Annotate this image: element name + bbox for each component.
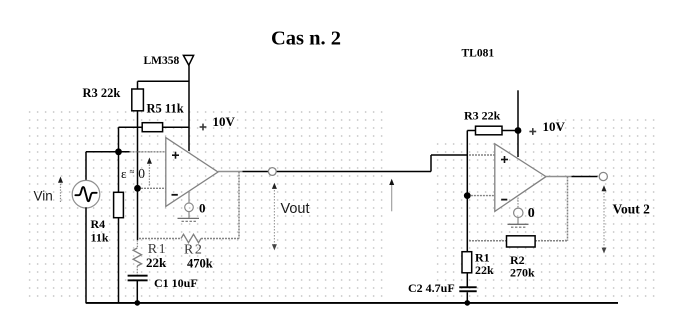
resistor R2 (stage 2) (507, 236, 536, 247)
svg-text:R3 22k: R3 22k (83, 86, 121, 100)
wire feedback 2 horizontal (dotted) (469, 240, 568, 242)
resistor R1 zigzag (136, 240, 138, 248)
node Vout open circle (268, 168, 276, 176)
wire port to op-amp supply (188, 65, 190, 151)
node junction dot A (115, 148, 122, 155)
wire step up (430, 155, 432, 172)
wire to stage 2 (431, 154, 467, 156)
supply label +10V left (200, 124, 207, 131)
wire C1 to rail (136, 281, 138, 303)
svg-text:R4: R4 (91, 217, 106, 231)
svg-text:Vout: Vout (281, 201, 310, 217)
svg-text:0: 0 (199, 201, 206, 216)
wire R5 right (163, 126, 189, 128)
wire feedback vertical (dotted) (238, 172, 240, 239)
svg-text:ε: ε (121, 166, 127, 181)
ground 0 symbol 2 (508, 223, 529, 225)
arrow epsilon (148, 163, 150, 186)
wire non-inverting input (dotted) (130, 151, 166, 153)
resistor R3 (132, 89, 144, 111)
wire R4 bottom to rail (118, 218, 120, 303)
op-amp U2 TL081 (495, 144, 546, 212)
arrow Vout (273, 187, 275, 247)
op-amp U1 LM358 (166, 138, 218, 207)
wire source to node A (86, 151, 130, 153)
capacitor C2 (459, 286, 476, 288)
wire R1 to C2 (466, 273, 468, 287)
svg-text:270k: 270k (510, 265, 535, 279)
svg-text:C1 10uF: C1 10uF (154, 276, 198, 290)
svg-text:22k: 22k (146, 255, 167, 270)
wire R3 left (467, 130, 475, 132)
arrow Vin (60, 182, 62, 203)
resistor R4 (114, 192, 124, 217)
supply label +10V right (529, 128, 536, 135)
arrow Vout2 (603, 190, 605, 249)
wire non-inverting input 2 (dotted) (469, 154, 495, 156)
svg-text:Vout 2: Vout 2 (613, 202, 651, 217)
svg-text:22k: 22k (475, 263, 494, 277)
wire R5 branch down (118, 127, 120, 152)
wire R3 right (502, 130, 518, 132)
wire inverting input (dotted) (141, 187, 166, 189)
wire branch A vertical (466, 131, 468, 252)
svg-text:470k: 470k (187, 257, 213, 271)
ground 0 symbol (178, 217, 200, 219)
resistor R3 (stage 2) (476, 126, 503, 135)
svg-text:R2: R2 (184, 243, 203, 258)
node junction dot supply 2 (515, 127, 522, 134)
arrow intermediate (391, 184, 393, 211)
wire output U2 gray stub (546, 176, 572, 178)
resistor R5 (142, 123, 162, 132)
wire supply vertical stage 2 (517, 90, 519, 157)
svg-text:LM358: LM358 (144, 55, 180, 67)
svg-text:10V: 10V (543, 119, 566, 134)
node junction dot C1-rail (135, 300, 141, 306)
node junction dot B (inverting node) (134, 185, 141, 192)
wire source bottom (85, 207, 87, 303)
svg-text:Cas n. 2: Cas n. 2 (271, 28, 341, 50)
wire output U1 (243, 171, 432, 173)
wire R5 left (119, 126, 143, 128)
svg-text:11k: 11k (91, 231, 109, 245)
wire feedback R2 left (dotted) (139, 238, 181, 240)
resistor R2 zigzag (181, 234, 201, 242)
wire top horizontal (138, 80, 190, 82)
wire output U2 (572, 176, 598, 178)
svg-text:TL081: TL081 (462, 48, 495, 60)
ground stub U1 (188, 192, 190, 203)
node Vout2 open circle (599, 172, 607, 180)
ground terminal circle U1 (185, 203, 194, 212)
ground stub U2 (517, 198, 519, 209)
wire R1 to C1 (136, 266, 138, 275)
wire C2 to rail (466, 292, 468, 303)
wire inverting input 2 (dotted) (471, 195, 495, 197)
wire R3 top stub (137, 81, 139, 89)
capacitor C1 (128, 275, 148, 277)
wire R3 bottom to inverting node (137, 111, 139, 240)
svg-text:0: 0 (138, 166, 145, 181)
wire source top (85, 152, 87, 182)
node junction dot inverting 2 (464, 192, 471, 199)
input port symbol (183, 55, 193, 65)
wire node A to R4 (118, 152, 120, 192)
wire feedback 2 vertical (dotted) (567, 177, 569, 241)
wire output U1 gray stub (218, 171, 243, 173)
svg-text:R5 11k: R5 11k (147, 102, 184, 116)
svg-text:Vin: Vin (34, 189, 53, 204)
svg-text:10V: 10V (213, 114, 236, 129)
svg-text:≈: ≈ (130, 167, 135, 177)
svg-text:C2 4.7uF: C2 4.7uF (408, 281, 455, 295)
svg-text:0: 0 (528, 206, 535, 221)
wire feedback R2 right (dotted) (201, 238, 239, 240)
ground rail bottom (86, 302, 618, 304)
ground terminal circle U2 (514, 208, 523, 217)
svg-text:R3 22k: R3 22k (464, 109, 501, 123)
node junction dot C2-rail (465, 300, 471, 306)
resistor R1 (stage 2) (462, 252, 472, 273)
source Vin sine generator (72, 180, 100, 208)
